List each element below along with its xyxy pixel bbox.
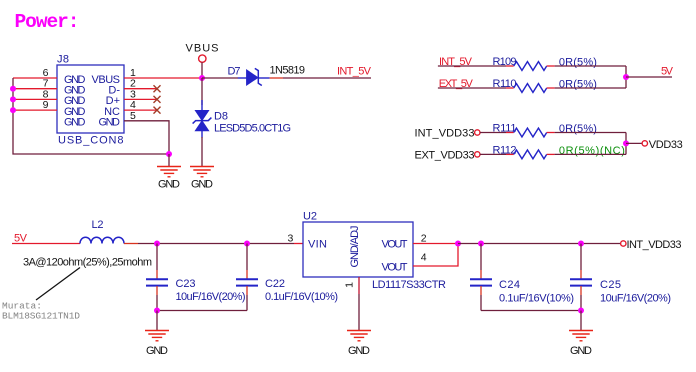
port circle EXT_VDD33 (475, 152, 480, 157)
resistor R111 value 0R(5%) (559, 123, 597, 135)
resistor R111 pin stub right (547, 132, 555, 134)
wire junction to 5V label (626, 76, 672, 78)
svg-text:10uF/16V(20%): 10uF/16V(20%) (176, 291, 246, 303)
U2 pin1 wire to ground (358, 277, 360, 331)
U2 pin3 stub (294, 243, 303, 245)
svg-text:2: 2 (421, 233, 427, 245)
wire node to D7 (202, 77, 238, 79)
svg-text:C25: C25 (600, 279, 621, 291)
port circle INT_VDD33 (475, 130, 480, 135)
diode D7 (schottky) (238, 68, 270, 85)
capacitor C24 top wire (480, 244, 482, 279)
svg-text:INT_VDD33: INT_VDD33 (627, 239, 682, 251)
J8 pin name GND row5 (64, 117, 86, 129)
capacitor C22 (236, 279, 258, 285)
svg-text:0R(5%): 0R(5%) (559, 57, 597, 69)
svg-text:VDD33: VDD33 (649, 139, 683, 151)
svg-text:LESD5D5.0CT1G: LESD5D5.0CT1G (214, 122, 291, 134)
wire left GND bus vertical (13, 78, 169, 154)
capacitor C23 value (176, 291, 246, 303)
inductor L2 note 3A@120ohm (23, 257, 152, 269)
connector J8 refdes (57, 54, 69, 66)
J8 pin number 6 (43, 67, 49, 79)
svg-text:VOUT: VOUT (382, 261, 408, 273)
wire D7 to INT_5V (270, 77, 371, 79)
wire junction to VDD33 circle (626, 142, 642, 144)
resistor R109 pin stub right (547, 65, 555, 67)
resistor R112 pin stub right (547, 153, 555, 155)
J8 pin name GND row2 (64, 85, 86, 97)
wire VBUS node down to D8 (201, 78, 203, 105)
svg-text:J8: J8 (57, 54, 69, 66)
net label INT_5V (row1) (439, 56, 473, 68)
J8 pin number 3 (130, 88, 136, 100)
capacitor C23 refdes (176, 278, 196, 290)
resistor R109 refdes (493, 56, 517, 68)
ground label under U2 (348, 345, 370, 357)
port circle INT_VDD33 (output) (621, 241, 626, 246)
resistor R109 value 0R(5%) (559, 57, 597, 69)
ground symbol under C25 (569, 331, 593, 341)
J8 pin name GND (pin5) (99, 117, 121, 129)
ground symbol under C23 (145, 331, 169, 341)
resistor R110 body (514, 84, 547, 93)
svg-text:GND: GND (570, 345, 592, 357)
svg-text:1: 1 (344, 282, 356, 288)
svg-text:0R(5%): 0R(5%) (559, 79, 597, 91)
ground symbol under D8 (190, 167, 214, 177)
svg-text:GND: GND (146, 345, 168, 357)
capacitor C25 refdes (600, 279, 621, 291)
wire join rows 1-2 (625, 66, 627, 88)
svg-text:4: 4 (421, 252, 427, 264)
U2 pin number 1 (344, 282, 356, 288)
U2 pin number 4 (421, 252, 427, 264)
port label INT_VDD33 (415, 128, 475, 140)
J8 pin name D- (108, 85, 120, 97)
J8 pin name D+ (106, 95, 120, 107)
regulator U2 refdes (303, 211, 317, 223)
wire join rows 3-4 (625, 133, 627, 155)
junction on bus at pin8 (10, 96, 16, 102)
net label INT_5V (337, 66, 372, 78)
U2 pin number 3 (288, 233, 294, 245)
svg-text:GND/ADJ: GND/ADJ (349, 226, 361, 268)
inductor L2 (80, 237, 124, 243)
svg-text:1N5819: 1N5819 (270, 65, 306, 77)
J8 pin number 8 (43, 88, 49, 100)
capacitor C22 bottom wire (246, 286, 248, 311)
capacitor C25 (570, 279, 592, 285)
resistor R110 pin stub left (506, 87, 514, 89)
J8 pin 6 stub wire (13, 77, 57, 79)
svg-text:5V: 5V (661, 66, 674, 78)
J8 pin 3 no-connect stub (124, 98, 157, 100)
svg-text:GND: GND (348, 345, 370, 357)
J8 pin 2 no-connect stub (124, 88, 157, 90)
capacitor C22 value (265, 291, 338, 303)
capacitor C25 top wire (580, 244, 582, 279)
J8 pin number 4 (130, 99, 136, 111)
resistor R112 refdes (493, 144, 517, 156)
svg-text:GND: GND (191, 179, 213, 191)
junction bottom rail right (578, 308, 584, 314)
connector J8 body (57, 65, 124, 133)
svg-text:0R(5%)(NC): 0R(5%)(NC) (559, 145, 625, 157)
ground symbol left (157, 167, 181, 177)
svg-text:INT_VDD33: INT_VDD33 (415, 128, 475, 140)
svg-text:VOUT: VOUT (382, 238, 408, 250)
J8 pin name VBUS (92, 74, 121, 86)
node VBUS junction (199, 75, 205, 81)
port label EXT_VDD33 (415, 149, 475, 161)
wire VBUS circle to node (201, 62, 203, 78)
svg-text:LD1117S33CTR: LD1117S33CTR (372, 279, 446, 291)
diode D7 value 1N5819 (270, 65, 306, 77)
TVS D8 value LESD5D5.0CT1G (214, 122, 291, 134)
capacitor C24 value (499, 293, 574, 305)
svg-text:C22: C22 (265, 278, 285, 290)
capacitor C23 (146, 279, 168, 285)
wire junction to ground (left) (168, 154, 170, 167)
port label INT_VDD33 (output) (627, 239, 682, 251)
capacitor C23 top wire (156, 244, 158, 279)
regulator U2 value LD1117S33CTR (372, 279, 446, 291)
J8 pin name GND row1 (64, 74, 86, 86)
svg-text:L2: L2 (92, 219, 104, 231)
U2 pin4 wire up to rail (413, 244, 458, 267)
capacitor C22 refdes (265, 278, 285, 290)
junction 5V (623, 74, 629, 80)
junction on bus at pin9 (10, 107, 16, 113)
wire 5V to L2 (12, 243, 80, 245)
svg-text:VBUS: VBUS (186, 43, 219, 55)
J8 pin name NC (104, 106, 120, 118)
no-connect X pin2 (154, 85, 161, 92)
wire row1 left (438, 65, 506, 67)
U2 pin name VOUT (pin2) (382, 238, 408, 250)
resistor R109 body (514, 62, 547, 71)
capacitor C22 top wire (246, 244, 248, 279)
resistor R112 body (514, 150, 547, 159)
svg-text:D8: D8 (214, 111, 228, 123)
capacitor C25 bottom wire (580, 286, 582, 311)
wire junction to ground (C25) (580, 311, 582, 331)
svg-text:0.1uF/16V(10%): 0.1uF/16V(10%) (265, 291, 338, 303)
wire bottom rail C24-C25 (481, 310, 581, 312)
svg-text:0.1uF/16V(10%): 0.1uF/16V(10%) (499, 293, 574, 305)
svg-text:GND: GND (99, 117, 121, 129)
connector J8 value USB_CON8 (58, 135, 124, 147)
junction rail C23 (154, 241, 160, 247)
J8 pin number 2 (130, 78, 136, 90)
wire D8 to ground (201, 137, 203, 167)
junction on bus at pin7 (10, 86, 16, 92)
wire row1 right (555, 65, 626, 67)
junction rail C25 (578, 241, 584, 247)
capacitor C24 refdes (499, 279, 520, 291)
J8 pin number 1 (130, 67, 136, 79)
regulator U2 body (303, 222, 413, 277)
wire row4 left (480, 153, 506, 155)
capacitor C24 bottom wire (480, 286, 482, 311)
wire L2 to VIN rail (124, 243, 294, 245)
capacitor C23 bottom wire (156, 286, 158, 311)
resistor R110 value 0R(5%) (559, 79, 597, 91)
wire VOUT rail (458, 243, 621, 245)
svg-text:C24: C24 (499, 279, 520, 291)
U2 pin2 stub (413, 243, 458, 245)
junction VDD33 (623, 140, 629, 146)
net label 5V (top right) (661, 66, 674, 78)
svg-text:EXT_VDD33: EXT_VDD33 (415, 149, 475, 161)
svg-text:0R(5%): 0R(5%) (559, 123, 597, 135)
svg-text:INT_5V: INT_5V (337, 66, 372, 78)
svg-text:GND: GND (158, 179, 180, 191)
resistor R111 pin stub left (506, 132, 514, 134)
ground symbol under U2 (347, 331, 371, 341)
J8 pin name GND row3 (64, 95, 86, 107)
ground label under C23 (146, 345, 168, 357)
wire pin1 to VBUS node (124, 77, 202, 79)
J8 pin number 7 (43, 78, 49, 90)
wire row3 right (555, 132, 626, 134)
net label EXT_5V (row2) (439, 78, 474, 90)
wire row2 left (438, 87, 506, 89)
resistor R109 pin stub left (506, 65, 514, 67)
TVS diode D8 (193, 100, 212, 138)
ground label left GND (158, 179, 180, 191)
svg-text:C23: C23 (176, 278, 196, 290)
note leader line (36, 268, 80, 301)
resistor R112 value 0R(5%)(NC) (559, 145, 625, 157)
svg-text:VIN: VIN (308, 238, 327, 250)
J8 pin 7 stub wire (13, 88, 57, 90)
net label 5V (bottom left) (14, 233, 28, 245)
svg-text:GND: GND (64, 117, 86, 129)
J8 pin number 9 (43, 99, 49, 111)
junction rail C22 (244, 241, 250, 247)
J8 pin 9 stub wire (13, 109, 57, 111)
U2 pin name GND/ADJ rotated (349, 226, 361, 268)
no-connect X pin3 (154, 96, 161, 103)
svg-text:9: 9 (43, 99, 49, 111)
resistor R111 body (514, 128, 547, 137)
wire row2 right (555, 87, 626, 89)
note BLM18SG121TN1D (2, 311, 80, 322)
U2 pin name VIN (308, 238, 327, 250)
ground label under D8 (191, 179, 213, 191)
J8 pin number 5 (130, 110, 136, 122)
svg-text:5: 5 (130, 110, 136, 122)
svg-text:D7: D7 (228, 66, 241, 78)
junction VOUT join (455, 241, 461, 247)
resistor R110 refdes (493, 78, 517, 90)
svg-text:Power:: Power: (15, 11, 80, 33)
wire junction to ground (C23) (156, 311, 158, 331)
J8 pin name GND row4 (64, 106, 86, 118)
capacitor C24 (470, 279, 492, 285)
VBUS open terminal circle (199, 55, 206, 62)
J8 pin 5 wire to GND (124, 121, 169, 154)
ground label under C25 (570, 345, 592, 357)
svg-text:10uF/16V(20%): 10uF/16V(20%) (600, 293, 671, 305)
resistor R112 pin stub left (506, 153, 514, 155)
svg-text:3A@120ohm(25%),25mohm: 3A@120ohm(25%),25mohm (23, 257, 152, 269)
wire row3 left (480, 132, 506, 134)
inductor L2 refdes (92, 219, 104, 231)
no-connect X pin4 (154, 107, 161, 114)
svg-text:5V: 5V (14, 233, 28, 245)
resistor R111 refdes (493, 123, 517, 135)
resistor R110 pin stub right (547, 87, 555, 89)
U2 pin name VOUT (pin4) (382, 261, 408, 273)
svg-text:BLM18SG121TN1D: BLM18SG121TN1D (2, 311, 80, 322)
note Murata: (2, 301, 42, 312)
junction rail C24 (478, 241, 484, 247)
U2 pin number 2 (421, 233, 427, 245)
VBUS label (186, 43, 219, 55)
svg-text:USB_CON8: USB_CON8 (58, 135, 124, 147)
TVS D8 refdes (214, 111, 228, 123)
J8 pin 8 stub wire (13, 98, 57, 100)
svg-text:U2: U2 (303, 211, 317, 223)
title Power: (15, 11, 80, 33)
port label VDD33 (649, 139, 683, 151)
wire bottom rail C23-C22 (157, 310, 247, 312)
J8 pin 4 no-connect stub (124, 109, 157, 111)
port circle VDD33 (642, 141, 647, 146)
diode D7 refdes (228, 66, 241, 78)
capacitor C25 value (600, 293, 671, 305)
svg-text:3: 3 (288, 233, 294, 245)
junction pin5/bus/GND (166, 151, 172, 157)
junction bottom rail left (154, 308, 160, 314)
wire row4 right (555, 153, 626, 155)
